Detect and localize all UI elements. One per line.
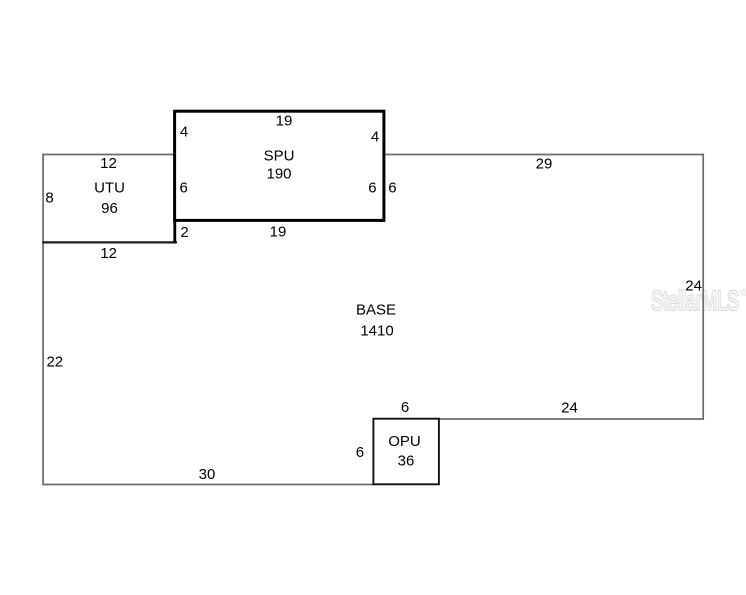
svg-text:6: 6 — [388, 179, 396, 196]
svg-text:36: 36 — [398, 452, 415, 469]
svg-text:12: 12 — [100, 155, 117, 172]
svg-text:®: ® — [740, 288, 746, 299]
svg-text:30: 30 — [199, 466, 216, 483]
svg-text:4: 4 — [180, 123, 188, 140]
svg-text:190: 190 — [266, 165, 291, 182]
svg-text:1410: 1410 — [360, 323, 393, 340]
svg-text:96: 96 — [101, 200, 118, 217]
svg-text:12: 12 — [100, 245, 117, 262]
wall: BASE bottom edge — [42, 484, 373, 486]
svg-text:UTU: UTU — [94, 179, 125, 196]
svg-text:29: 29 — [536, 155, 553, 172]
svg-text:6: 6 — [356, 444, 364, 461]
svg-text:22: 22 — [46, 353, 63, 370]
svg-text:SPU: SPU — [264, 147, 295, 164]
watermark StellarMLS — [651, 285, 746, 316]
svg-text:OPU: OPU — [388, 433, 421, 450]
svg-text:6: 6 — [401, 399, 409, 416]
wall: BASE top edge left segment (UTU top) — [42, 154, 175, 156]
wall: BASE bottom-right edge above OPU level — [439, 418, 704, 420]
area OPU outline — [373, 419, 439, 485]
svg-text:6: 6 — [368, 179, 376, 196]
svg-text:8: 8 — [45, 189, 53, 206]
area SPU outline — [175, 111, 384, 220]
svg-text:6: 6 — [180, 180, 188, 197]
wall: BASE right edge — [702, 154, 704, 420]
svg-text:19: 19 — [276, 112, 293, 129]
svg-text:24: 24 — [685, 278, 702, 295]
wall: BASE left edge — [42, 154, 44, 486]
wall: UTU bottom edge — [42, 241, 177, 243]
svg-text:19: 19 — [270, 223, 287, 240]
svg-text:24: 24 — [561, 399, 578, 416]
svg-text:BASE: BASE — [356, 302, 396, 319]
wall: BASE top edge right segment — [384, 154, 704, 156]
svg-text:4: 4 — [371, 128, 379, 145]
wall: segment 2 below SPU left — [173, 221, 176, 243]
svg-text:2: 2 — [180, 224, 188, 241]
